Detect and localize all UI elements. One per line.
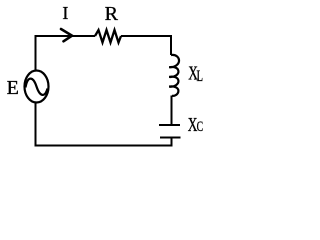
wire: coil to capacitor (171, 96, 173, 124)
svg-text:I: I (62, 3, 68, 23)
inductor XL coil (169, 55, 179, 96)
resistor R (zigzag) (95, 30, 121, 43)
wire: left vertical bottom (34, 102, 36, 147)
svg-text:R: R (105, 3, 119, 25)
label XC (188, 113, 203, 135)
svg-text:E: E (7, 77, 19, 99)
wire: capacitor to bottom wire and bottom wire to left (35, 137, 171, 145)
wire: top wire right segment + right vertical down to coil (121, 36, 171, 55)
AC source E (ellipse) (25, 71, 49, 103)
sine wave inside source (26, 79, 48, 95)
label XL (188, 62, 203, 85)
wire: left vertical top + top wire left segment (35, 36, 95, 71)
capacitor XC bottom plate (160, 136, 181, 138)
capacitor XC top plate (159, 124, 180, 126)
current arrow on top wire (61, 29, 72, 41)
